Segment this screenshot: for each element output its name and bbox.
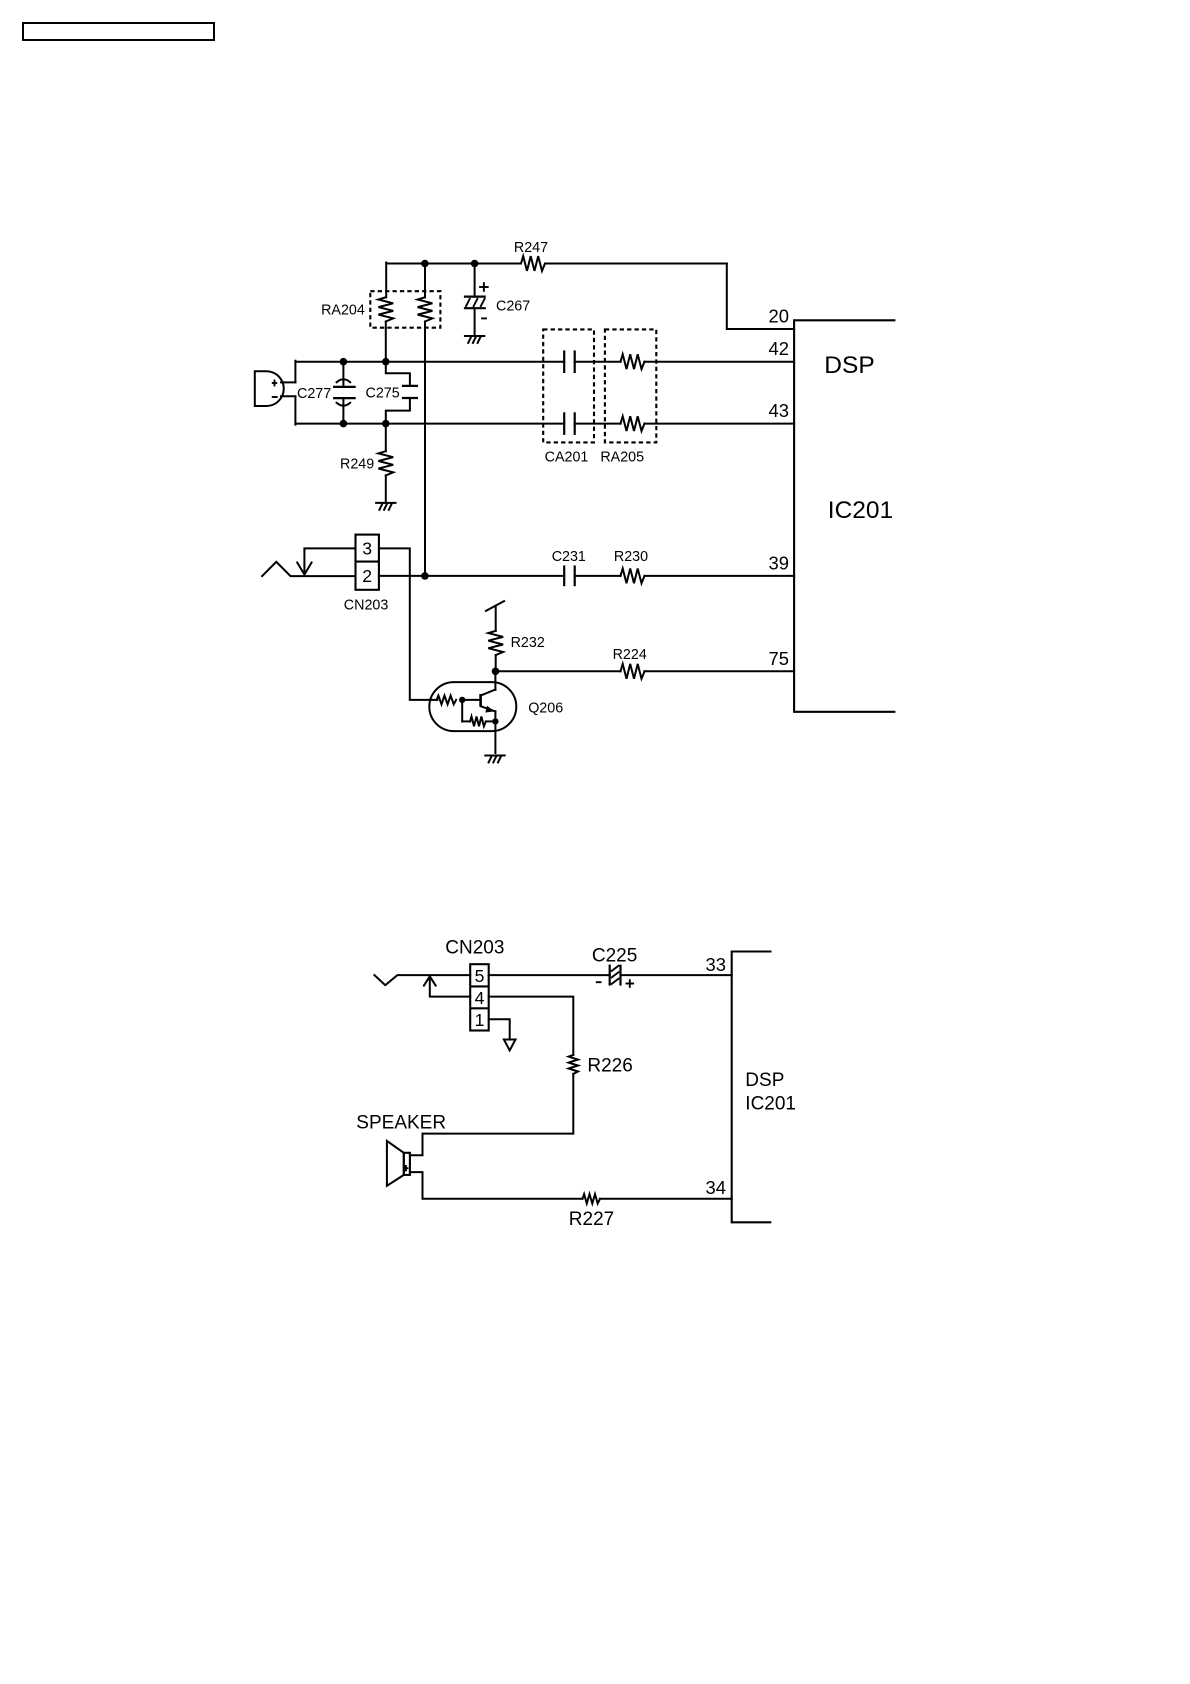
ground below Q206	[485, 756, 504, 763]
svg-text:43: 43	[769, 400, 789, 421]
svg-text:R227: R227	[569, 1209, 614, 1230]
svg-text:R232: R232	[511, 635, 545, 651]
ground below C267	[465, 336, 484, 343]
svg-text:R249: R249	[340, 456, 374, 472]
header revision box (empty)	[23, 23, 214, 40]
wire RA204 left leg	[385, 263, 387, 362]
svg-text:C275: C275	[366, 386, 400, 402]
svg-text:IC201: IC201	[828, 497, 893, 524]
svg-text:3: 3	[362, 539, 372, 559]
svg-text:75: 75	[769, 648, 789, 669]
wire CN203 pin 4 to R226 and speaker +	[410, 997, 573, 1156]
svg-text:CN203: CN203	[344, 597, 389, 613]
capacitor C231	[552, 549, 586, 586]
resistor R230	[614, 549, 648, 583]
ground below R249	[376, 503, 395, 510]
capacitor C277	[297, 358, 356, 428]
capacitor C225 (polarized, - left + right)	[592, 946, 637, 988]
svg-text:R230: R230	[614, 549, 648, 565]
svg-text:C225: C225	[592, 946, 637, 967]
svg-text:R247: R247	[514, 240, 548, 256]
svg-text:IC201: IC201	[745, 1093, 796, 1114]
svg-text:RA205: RA205	[600, 449, 644, 465]
speaker SP201	[356, 1113, 446, 1186]
resistor R227	[569, 1194, 614, 1230]
text DSP (top block)	[824, 352, 874, 379]
wire jack squiggle to CN203 pin 5 (bottom)	[374, 975, 470, 985]
svg-text:4: 4	[475, 988, 485, 1008]
node junction R232 / Q206 collector / R224	[492, 668, 500, 676]
pin 42 label	[769, 338, 789, 359]
text IC201 (bottom block)	[745, 1093, 796, 1114]
pin 34 label	[706, 1177, 726, 1198]
svg-text:20: 20	[769, 306, 789, 327]
wire CN203 pin 5 to C225	[489, 974, 610, 976]
svg-text:CN203: CN203	[445, 938, 504, 959]
node junction top rail / RA204 right	[421, 260, 429, 268]
resistor-array RA205 dashed outline	[600, 329, 656, 465]
wire pin 43 net (mic- row)	[295, 423, 794, 425]
IC block IC201 DSP outline (top)	[794, 320, 895, 712]
svg-text:42: 42	[769, 338, 789, 359]
arrow jack switch (down) at CN203 pin 3	[297, 563, 311, 575]
svg-text:2: 2	[362, 566, 372, 586]
svg-text:DSP: DSP	[824, 352, 874, 379]
capacitor C275	[366, 358, 419, 428]
resistor-array RA204 dashed outline	[321, 291, 440, 328]
svg-text:SPEAKER: SPEAKER	[356, 1113, 446, 1134]
capacitor-array CA201 elements	[564, 350, 575, 435]
wire CN203 pin3 to switch arrow	[304, 548, 355, 572]
resistor RA204 left element	[378, 297, 393, 321]
resistor R247	[514, 240, 548, 271]
capacitor-array CA201 dashed outline	[543, 329, 594, 465]
svg-text:Q206: Q206	[528, 701, 563, 717]
IC block IC201 DSP outline (bottom)	[732, 952, 772, 1223]
resistor R249	[340, 424, 393, 503]
resistor R226	[569, 1055, 633, 1077]
svg-text:C231: C231	[552, 549, 586, 565]
wire pin 75 net	[496, 670, 795, 672]
pin 43 label	[769, 400, 789, 421]
svg-text:RA204: RA204	[321, 303, 365, 319]
svg-text:CA201: CA201	[545, 449, 589, 465]
connector CN203 (pins 3,2)	[344, 535, 389, 614]
wire pin 39 net from CN203 pin 2	[379, 575, 794, 577]
pin 39 label	[769, 552, 789, 573]
svg-text:R226: R226	[587, 1056, 632, 1077]
pin 75 label	[769, 648, 789, 669]
svg-text:1: 1	[475, 1010, 485, 1030]
text DSP (bottom block)	[745, 1070, 784, 1091]
wire microphone stubs and loop verticals	[281, 361, 295, 425]
earth ground triangle at CN203 pin 1	[504, 1040, 516, 1051]
transistor Q206 (digital, built-in resistors)	[429, 671, 563, 753]
svg-text:C277: C277	[297, 386, 331, 402]
svg-text:5: 5	[475, 966, 485, 986]
svg-text:33: 33	[706, 954, 726, 975]
svg-text:34: 34	[706, 1177, 726, 1198]
pin 33 label	[706, 954, 726, 975]
svg-text:R224: R224	[613, 647, 647, 663]
node junction CN203 pin2 / RA204 vertical	[421, 572, 429, 580]
resistor R232	[488, 606, 545, 671]
resistor-array RA205 elements	[621, 354, 645, 431]
svg-text:DSP: DSP	[745, 1070, 784, 1091]
arrow jack switch (up) at CN203 pin 4	[424, 976, 470, 996]
capacitor C267 (polarized, + top)	[464, 264, 530, 336]
resistor RA204 right element	[418, 297, 433, 321]
wire pin 42 net (mic+ row)	[295, 361, 794, 363]
wire RA204 right leg long vertical to CN203 node	[424, 264, 426, 576]
resistor R224	[613, 647, 647, 679]
wire top rail from RA204 corner to R247 and corner to pin 20	[386, 264, 794, 330]
connector CN203 (pins 5,4,1)	[445, 938, 504, 1031]
wire jack sleeve squiggle to CN203 pin 2	[262, 562, 355, 576]
wire CN203 pin3 to Q206 base	[379, 548, 437, 700]
wire C225 to pin 33	[621, 974, 732, 976]
svg-text:39: 39	[769, 552, 789, 573]
pin 20 label	[769, 306, 789, 327]
wire speaker - to R227 and pin 34	[410, 1172, 732, 1199]
wire CN203 pin 1 to earth	[489, 1019, 510, 1039]
node junction top rail / C267	[471, 260, 479, 268]
text IC201 (top block)	[828, 497, 893, 524]
power rail stub above R232	[486, 601, 504, 611]
microphone (electret, + / -)	[255, 371, 284, 406]
svg-text:C267: C267	[496, 299, 530, 315]
